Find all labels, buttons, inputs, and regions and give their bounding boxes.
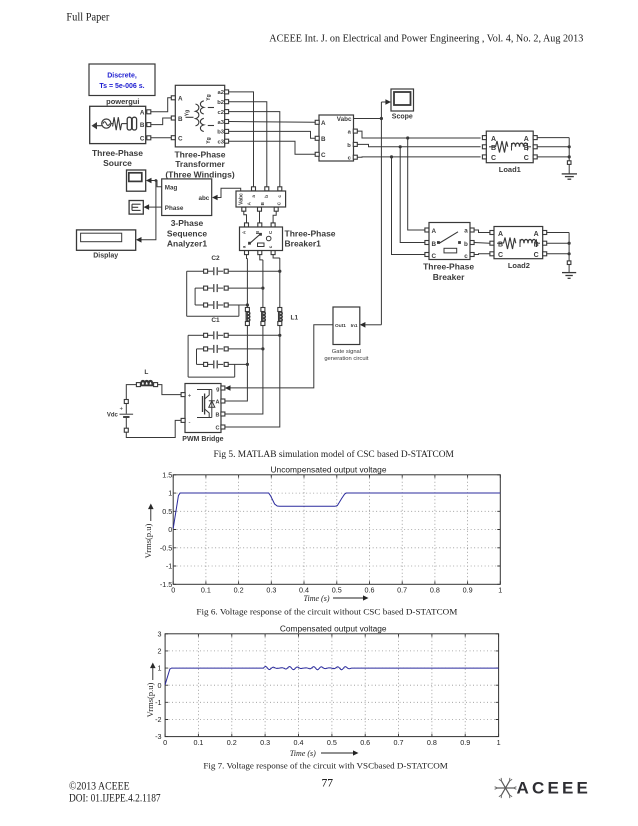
svg-text:Time (s): Time (s): [304, 594, 330, 603]
svg-text:Gate signal: Gate signal: [332, 349, 361, 355]
svg-text:0: 0: [168, 525, 172, 534]
svg-text:A: A: [178, 96, 183, 103]
display block: [77, 230, 136, 260]
svg-text:b: b: [347, 143, 351, 149]
svg-text:C: C: [321, 152, 326, 159]
svg-text:0.7: 0.7: [397, 585, 407, 594]
powergui block: [89, 64, 155, 106]
svg-text:©2013 ACEEE: ©2013 ACEEE: [69, 780, 130, 792]
phase rail c (vertical): [225, 258, 280, 427]
svg-text:2: 2: [158, 647, 162, 656]
svg-text:-2: -2: [155, 715, 161, 724]
svg-text:Load2: Load2: [508, 261, 530, 270]
wire measurement to analyzer abc: [212, 188, 241, 200]
capacitor bank C1: [188, 317, 281, 377]
svg-text:c2: c2: [218, 110, 224, 116]
svg-text:0: 0: [171, 585, 175, 594]
svg-text:b2: b2: [217, 100, 224, 106]
svg-text:ACEEE: ACEEE: [517, 779, 592, 798]
svg-text:Transformer: Transformer: [175, 159, 225, 169]
svg-text:-1: -1: [166, 562, 172, 571]
svg-text:C: C: [498, 252, 503, 259]
capacitor bank C2: [187, 255, 282, 316]
wire Load1 to ground node: [537, 138, 571, 161]
svg-text:g: g: [216, 386, 219, 392]
wire source C to transformer C: [151, 137, 172, 139]
sequence analyzer label: [167, 218, 207, 249]
svg-text:Analyzer1: Analyzer1: [167, 239, 207, 249]
svg-text:Fig 5. MATLAB simulation model: Fig 5. MATLAB simulation model of CSC ba…: [214, 449, 454, 459]
svg-text:b3: b3: [217, 130, 225, 136]
three-phase transformer T1: [171, 85, 228, 147]
footer copyright: [69, 780, 161, 804]
svg-text:Display: Display: [93, 252, 118, 259]
svg-text:A: A: [498, 231, 503, 238]
svg-text:0.5: 0.5: [332, 585, 342, 594]
svg-text:L1: L1: [291, 315, 299, 322]
svg-text:0.5: 0.5: [162, 507, 172, 516]
svg-text:B: B: [321, 136, 326, 143]
svg-text:A: A: [140, 109, 145, 116]
wire c3 to Vabc C: [229, 141, 316, 154]
svg-text:C: C: [524, 155, 529, 162]
wire phase b to Load1 B: [357, 144, 480, 148]
svg-text:3: 3: [158, 629, 162, 638]
chart fig7 compensated output voltage: [145, 625, 501, 758]
wire source A to transformer A: [151, 98, 172, 112]
wire b3 to Vabc B: [229, 131, 316, 138]
svg-text:-1: -1: [155, 698, 161, 707]
svg-text:0.1: 0.1: [201, 585, 211, 594]
svg-text:C2: C2: [211, 255, 220, 262]
wires measurement to breaker1: [244, 211, 276, 223]
wire phase a to Load1 A: [357, 131, 480, 139]
svg-text:+: +: [120, 407, 124, 413]
svg-text:A: A: [534, 231, 539, 238]
svg-text:1: 1: [498, 585, 502, 594]
svg-text:C: C: [432, 253, 437, 260]
svg-text:a: a: [464, 228, 468, 235]
svg-text:0.5: 0.5: [327, 738, 337, 747]
three-phase breaker1 block: [240, 223, 283, 255]
svg-text:Full Paper: Full Paper: [66, 12, 109, 24]
DC source Vdc: [107, 400, 133, 433]
svg-text:Load1: Load1: [499, 165, 521, 174]
load1 label: [499, 165, 521, 174]
scope block: [391, 89, 414, 120]
page number: [321, 778, 333, 790]
svg-text:1: 1: [497, 738, 501, 747]
svg-text:C: C: [534, 252, 539, 259]
svg-text:a: a: [251, 195, 256, 198]
wire Vdc to PWM -: [126, 420, 181, 437]
svg-text:0.9: 0.9: [460, 738, 470, 747]
svg-text:a2: a2: [218, 90, 224, 96]
svg-text:0.8: 0.8: [427, 738, 437, 747]
three-phase source label: [92, 148, 143, 168]
load block Load2: [490, 227, 547, 259]
svg-text:Out1: Out1: [335, 323, 346, 329]
wire phase b down to breaker B: [400, 147, 425, 243]
svg-text:Fig 7. Voltage response of the: Fig 7. Voltage response of the circuit w…: [203, 761, 448, 771]
svg-text:c: c: [464, 253, 468, 260]
svg-text:B: B: [498, 242, 503, 249]
wire phase c to Load1 C: [357, 155, 480, 158]
fig5 caption: [214, 449, 454, 459]
wire Vabc out to scope and gate circuit node: [354, 99, 392, 327]
fig6 caption: [196, 607, 457, 617]
phase rail a (vertical): [225, 259, 248, 402]
svg-text:B: B: [178, 116, 183, 123]
chart fig6 uncompensated output voltage: [143, 466, 502, 603]
svg-text:1: 1: [158, 664, 162, 673]
svg-text:A: A: [491, 136, 496, 143]
svg-text:0.7: 0.7: [394, 738, 404, 747]
svg-text:Three-Phase: Three-Phase: [174, 149, 225, 159]
wire analyzer Mag to scope1 and display: [136, 178, 162, 243]
3-phase sequence analyzer block: [162, 179, 212, 216]
wire analyzer Phase to display icon: [144, 204, 162, 210]
svg-text:Yg: Yg: [206, 137, 212, 143]
gate signal generation circuit block: [324, 307, 369, 362]
svg-text:1.5: 1.5: [162, 470, 172, 479]
svg-text:Vrms(p.u): Vrms(p.u): [143, 524, 153, 559]
svg-text:powergui: powergui: [106, 97, 139, 106]
svg-text:Scope: Scope: [392, 113, 413, 120]
svg-text:Three-Phase: Three-Phase: [92, 148, 143, 158]
svg-text:1: 1: [168, 489, 172, 498]
inductor L: [136, 369, 157, 387]
svg-text:ACEEE Int. J. on Electrical an: ACEEE Int. J. on Electrical and Power En…: [269, 33, 583, 45]
svg-text:L: L: [144, 369, 148, 376]
breaker1 label: [285, 228, 336, 248]
svg-text:0.9: 0.9: [463, 585, 473, 594]
svg-text:A: A: [524, 136, 529, 143]
svg-text:abc: abc: [198, 195, 209, 202]
transformer label: [165, 149, 235, 179]
three-phase source Vs: [90, 106, 151, 143]
wires breaker to Load2: [474, 230, 490, 255]
svg-text:3-Phase: 3-Phase: [171, 218, 204, 228]
svg-text:+: +: [188, 393, 192, 399]
svg-text:Vabc: Vabc: [337, 116, 352, 123]
svg-text:C: C: [178, 136, 183, 143]
PWM bridge label: [182, 436, 223, 443]
svg-text:B: B: [140, 122, 145, 129]
wire phase a down to breaker A: [408, 138, 426, 230]
svg-text:Fig 6. Voltage response of the: Fig 6. Voltage response of the circuit w…: [196, 607, 457, 617]
svg-text:0.4: 0.4: [294, 738, 304, 747]
svg-text:Three-Phase: Three-Phase: [423, 262, 474, 272]
ground G2: [562, 261, 576, 278]
three-phase VI measurement block (rotated): [236, 187, 286, 211]
ACEEE logo: [495, 778, 591, 798]
svg-text:-3: -3: [155, 732, 161, 741]
svg-text:Uncompensated output voltage: Uncompensated output voltage: [271, 466, 388, 475]
svg-text:Vdc: Vdc: [107, 413, 119, 419]
wire source B to transformer B: [151, 118, 172, 125]
svg-text:Source: Source: [103, 158, 132, 168]
svg-text:a3: a3: [218, 120, 225, 126]
svg-text:0.8: 0.8: [430, 585, 440, 594]
svg-text:DOI: 01.IJEPE.4.2.1187: DOI: 01.IJEPE.4.2.1187: [69, 793, 161, 805]
wires breaker1 to phase rails: [247, 255, 280, 260]
wire a2 down to measurement: [229, 92, 254, 187]
scope1 block: [127, 170, 146, 191]
fig7 caption: [203, 761, 448, 771]
svg-text:C: C: [491, 155, 496, 162]
svg-text:A: A: [432, 228, 437, 235]
svg-text:B: B: [216, 412, 220, 418]
svg-text:C1: C1: [211, 317, 220, 324]
svg-text:Vrms(p.u): Vrms(p.u): [145, 683, 155, 718]
svg-text:0.3: 0.3: [260, 738, 270, 747]
svg-text:C: C: [216, 425, 220, 431]
svg-text:0.1: 0.1: [193, 738, 203, 747]
svg-text:Yg: Yg: [185, 110, 191, 116]
svg-text:A: A: [321, 120, 326, 127]
svg-text:b: b: [264, 195, 269, 198]
svg-text:0: 0: [163, 738, 167, 747]
svg-text:Yg: Yg: [206, 94, 212, 100]
svg-text:A: A: [216, 399, 220, 405]
wire L to PWM +: [158, 385, 181, 395]
wire a3 to Vabc A: [229, 121, 316, 124]
svg-text:Vabc: Vabc: [239, 193, 245, 205]
svg-text:c3: c3: [218, 140, 225, 146]
wire b2 down to measurement: [229, 102, 267, 187]
svg-text:PWM Bridge: PWM Bridge: [182, 436, 223, 443]
breaker label: [423, 262, 474, 282]
svg-text:0.6: 0.6: [360, 738, 370, 747]
svg-text:Phase: Phase: [165, 205, 184, 212]
load2 label: [508, 261, 530, 270]
svg-text:generation circuit: generation circuit: [324, 356, 369, 362]
svg-text:Sequence: Sequence: [167, 228, 207, 238]
header: journal line: [269, 33, 583, 45]
svg-text:(Three Windings): (Three Windings): [165, 169, 235, 179]
three-phase breaker block: [425, 223, 474, 261]
wire phase c down to breaker C: [392, 157, 426, 255]
svg-text:0: 0: [158, 681, 162, 690]
svg-text:Three-Phase: Three-Phase: [285, 228, 336, 238]
header: Full Paper: [66, 12, 109, 24]
wire L to Vdc: [126, 385, 136, 400]
svg-text:Breaker: Breaker: [433, 272, 465, 282]
svg-text:Mag: Mag: [165, 184, 178, 191]
svg-text:-0.5: -0.5: [160, 543, 172, 552]
svg-text:In1: In1: [351, 323, 358, 329]
three-phase V measurement block Vabc: [315, 115, 357, 162]
wire gate Out1 to PWM g: [225, 325, 333, 391]
wire c2 down to measurement: [229, 112, 280, 187]
svg-text:Discrete,: Discrete,: [107, 73, 137, 80]
ground G1: [562, 161, 577, 179]
PWM bridge U1: [181, 384, 225, 433]
svg-text:B: B: [432, 241, 437, 248]
svg-text:Ts = 5e-006 s.: Ts = 5e-006 s.: [99, 83, 144, 90]
phase rail b (vertical): [225, 260, 263, 414]
svg-text:0.2: 0.2: [234, 585, 244, 594]
svg-text:77: 77: [321, 778, 333, 790]
inductor L1 branches: [245, 308, 298, 326]
svg-text:Compensated output voltage: Compensated output voltage: [280, 625, 387, 634]
svg-text:b: b: [464, 241, 468, 248]
svg-text:0.6: 0.6: [364, 585, 374, 594]
svg-text:0.2: 0.2: [227, 738, 237, 747]
svg-text:Time (s): Time (s): [290, 749, 316, 758]
svg-text:-: -: [189, 420, 191, 426]
svg-text:C: C: [140, 135, 145, 142]
svg-text:0.3: 0.3: [266, 585, 276, 594]
wire Load2 to ground node: [547, 233, 571, 262]
phase display block: [129, 201, 143, 215]
load block Load1: [482, 131, 537, 163]
svg-text:Breaker1: Breaker1: [285, 239, 322, 249]
